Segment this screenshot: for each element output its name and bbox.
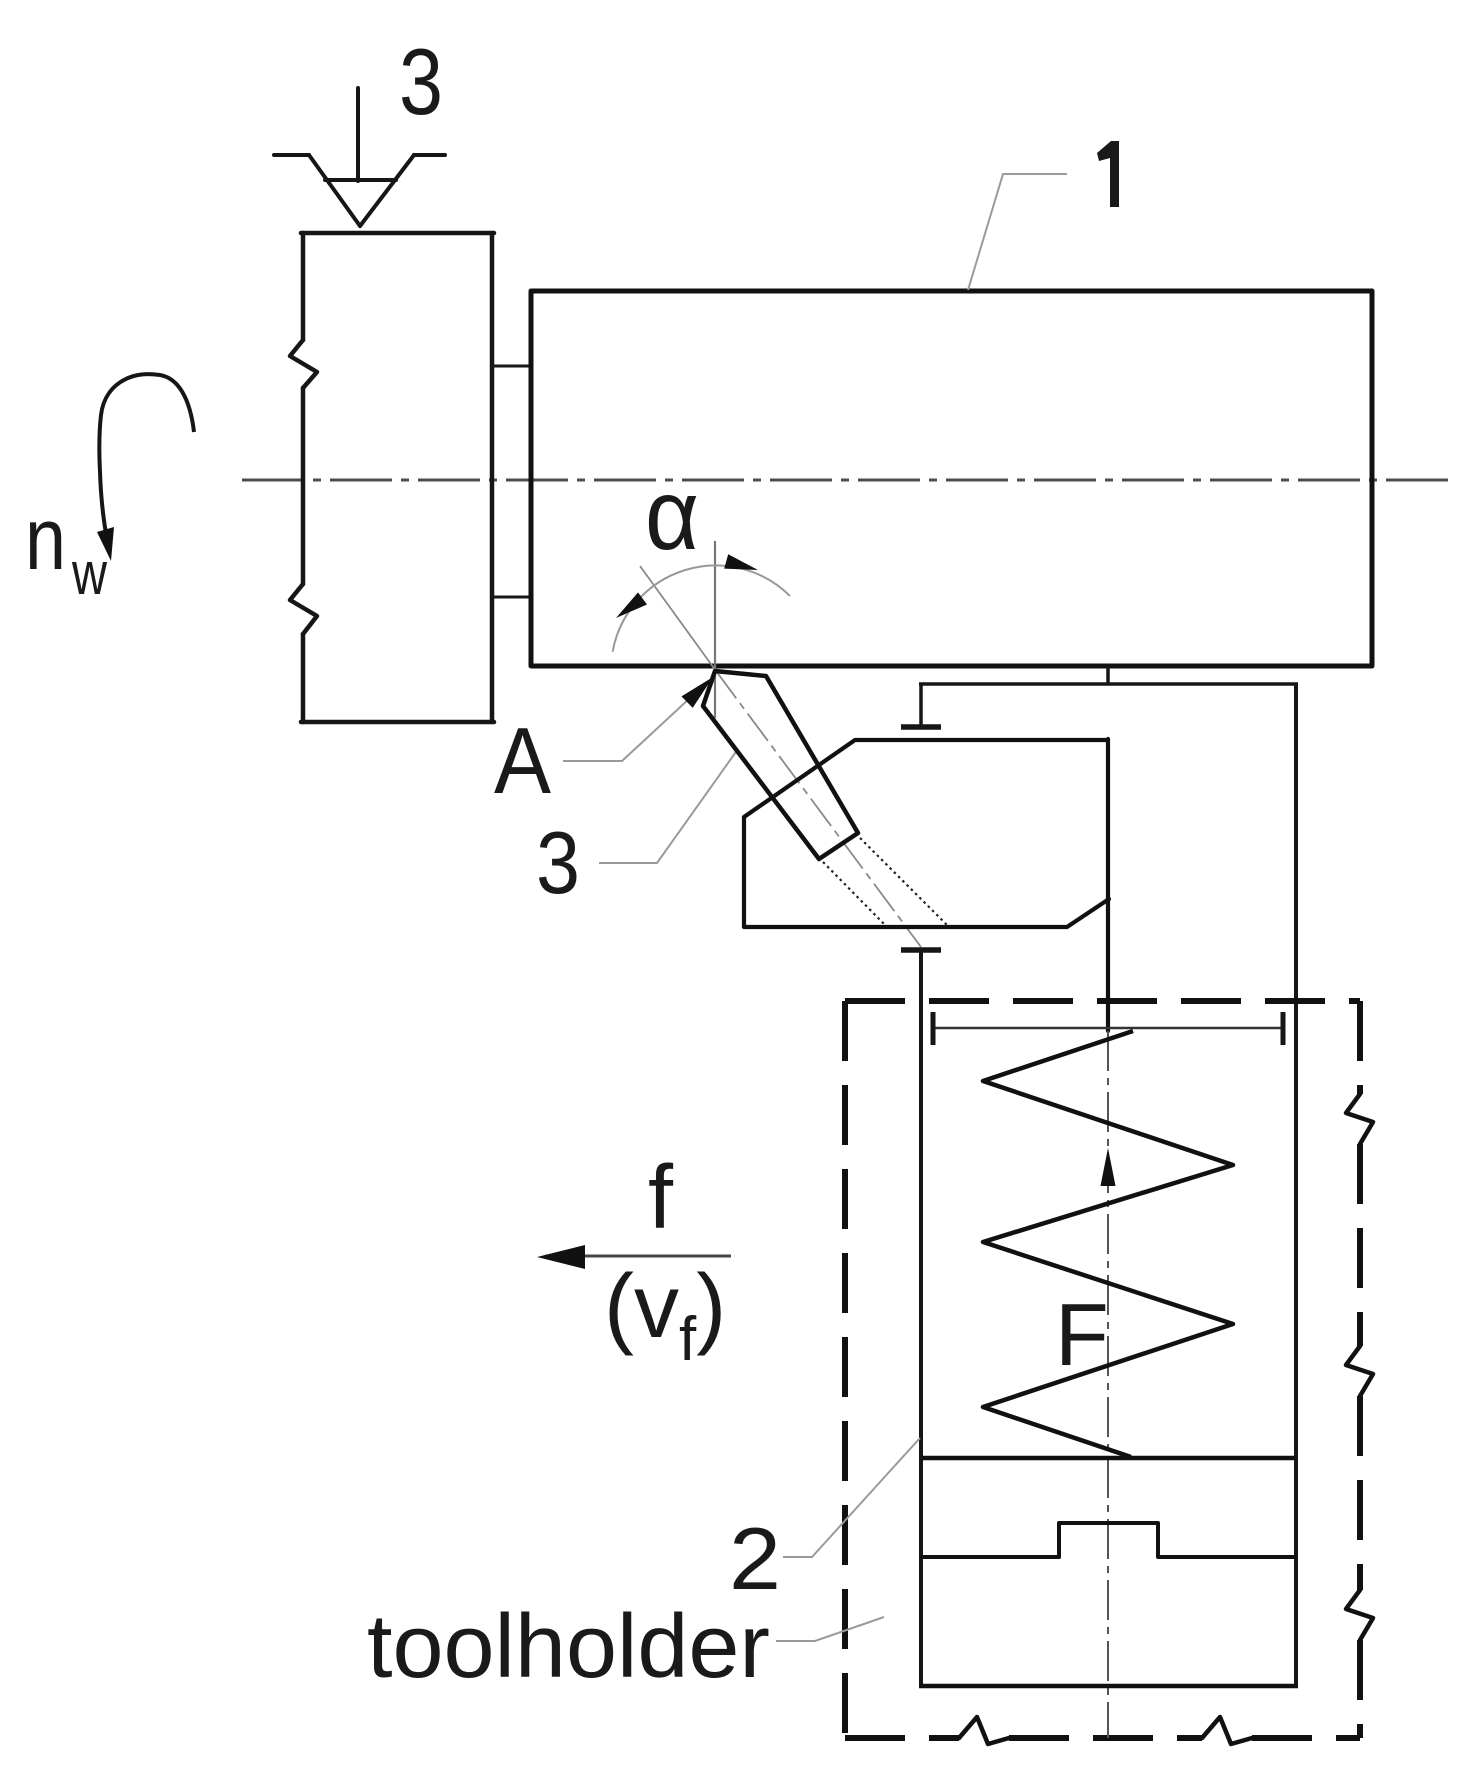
svg-text:α: α: [645, 459, 699, 571]
svg-text:3: 3: [536, 813, 580, 912]
svg-text:2: 2: [729, 1509, 781, 1608]
svg-text:F: F: [1055, 1285, 1109, 1384]
svg-text:n: n: [25, 489, 66, 588]
svg-text:3: 3: [399, 29, 443, 134]
svg-text:toolholder: toolholder: [367, 1597, 770, 1697]
svg-text:f: f: [648, 1148, 674, 1248]
svg-text:A: A: [494, 708, 551, 813]
svg-text:w: w: [71, 540, 107, 607]
svg-text:(vf): (vf): [604, 1257, 726, 1374]
